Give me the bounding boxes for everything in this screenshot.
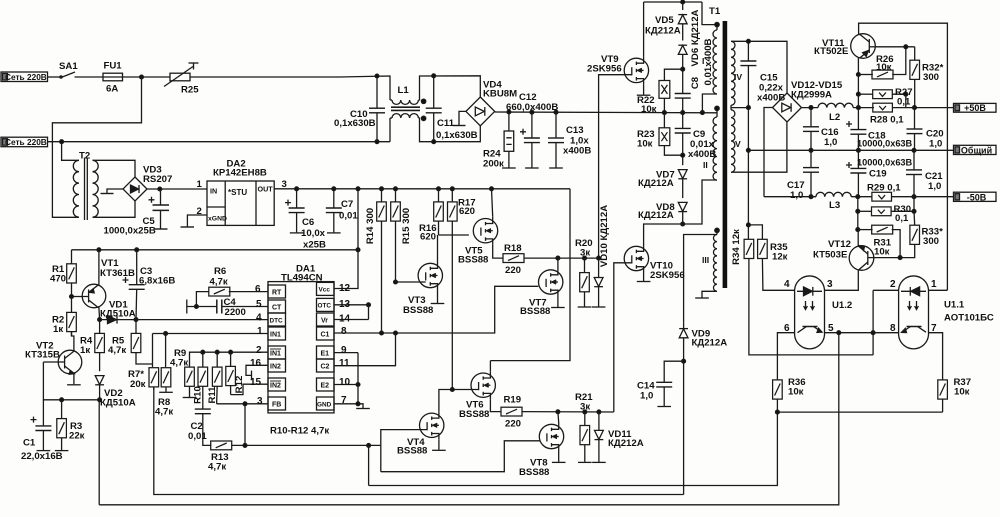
svg-text:8: 8 bbox=[890, 323, 896, 334]
svg-text:E2: E2 bbox=[321, 383, 330, 390]
svg-text:7: 7 bbox=[931, 323, 937, 334]
svg-text:R15 300: R15 300 bbox=[401, 208, 412, 244]
DTC wire (pin 4 net) with VD1 bbox=[98, 318, 268, 322]
capacitor C2 0,01 bbox=[195, 409, 212, 445]
svg-text:15: 15 bbox=[250, 377, 262, 388]
svg-text:7: 7 bbox=[341, 395, 347, 406]
svg-text:4,7к: 4,7к bbox=[208, 462, 226, 473]
resistor R33* 300 bbox=[900, 211, 919, 257]
svg-text:4: 4 bbox=[784, 279, 790, 290]
current sense R28 0,1 bbox=[873, 103, 954, 112]
svg-text:-50В: -50В bbox=[967, 193, 987, 203]
VT6 gate wire and VT4 drain riser bbox=[439, 390, 479, 412]
svg-text:SA1: SA1 bbox=[59, 61, 78, 72]
primary feedback bus (VD9 to R7) bbox=[154, 387, 684, 494]
DA1 pin names right bbox=[317, 287, 332, 409]
terminal Сеть 220В (line 2) bbox=[1, 137, 48, 147]
VT11 base wire bbox=[875, 45, 914, 49]
MOSFET VT5 BSS88 bbox=[473, 217, 497, 245]
E1/E2 common riser to GND pin bbox=[357, 353, 359, 404]
VT10 source T-bar bbox=[637, 273, 651, 282]
VT6 source to R19 bbox=[490, 399, 501, 411]
svg-text:U1.1: U1.1 bbox=[944, 300, 965, 311]
svg-text:C13: C13 bbox=[566, 125, 584, 136]
svg-text:5: 5 bbox=[256, 299, 262, 310]
VT9 source T-bar bbox=[637, 84, 651, 95]
svg-text:0,1: 0,1 bbox=[895, 213, 909, 224]
svg-text:GND: GND bbox=[317, 402, 332, 409]
svg-text:C1: C1 bbox=[321, 332, 330, 339]
svg-text:4,7к: 4,7к bbox=[170, 358, 188, 369]
MOSFET VT6 BSS88 bbox=[471, 371, 495, 399]
svg-text:0,1: 0,1 bbox=[897, 97, 911, 108]
svg-text:L2: L2 bbox=[829, 112, 840, 123]
wire T2 secondary to VD3 bbox=[95, 160, 135, 217]
wire FU1 to R25 with junction bbox=[123, 75, 171, 79]
capacitor C1 22,0x16В bbox=[31, 400, 52, 451]
svg-text:R10: R10 bbox=[193, 386, 204, 404]
capacitor C9 0,01x x400В bbox=[675, 113, 691, 166]
resistor R10 bbox=[198, 352, 208, 409]
svg-text:BSS88: BSS88 bbox=[397, 446, 428, 457]
riser U1 pins 2/5/8 node down to R34 wire bbox=[872, 290, 874, 355]
resistor R17 620 bbox=[448, 189, 458, 392]
svg-text:КТ361В: КТ361В bbox=[100, 268, 135, 279]
svg-text:1,0: 1,0 bbox=[790, 190, 803, 201]
VT5 gate wire bbox=[439, 234, 469, 236]
overline IN2b bbox=[270, 380, 281, 382]
resistor R5 4,7к bbox=[131, 320, 152, 364]
svg-text:10к: 10к bbox=[876, 62, 892, 73]
VT4 source T-bar bbox=[432, 439, 446, 450]
svg-text:470: 470 bbox=[50, 274, 66, 285]
capacitor C16 1,0 bbox=[803, 108, 819, 151]
regulator DA2 КР142ЕН8В bbox=[207, 181, 274, 225]
svg-text:IN2: IN2 bbox=[270, 383, 281, 390]
svg-text:CT: CT bbox=[272, 305, 282, 312]
svg-text:0,01x400В: 0,01x400В bbox=[703, 38, 714, 85]
svg-text:1: 1 bbox=[197, 179, 203, 190]
svg-text:2: 2 bbox=[256, 345, 262, 356]
svg-text:OUT: OUT bbox=[258, 185, 274, 194]
svg-text:R14 300: R14 300 bbox=[365, 208, 376, 244]
VT10 gate riser from lower driver row bbox=[614, 263, 632, 412]
MOSFET VT8 BSS88 bbox=[539, 423, 563, 451]
VT5 drain riser to +25 rail bbox=[492, 189, 493, 217]
DA1 pin 14 Vr wire bbox=[334, 305, 369, 320]
VT4 gate wire and riser bbox=[381, 430, 427, 472]
svg-text:BSS88: BSS88 bbox=[458, 255, 489, 266]
capacitor C18 10000,0x63В bbox=[846, 108, 866, 151]
resistor R19 220 bbox=[501, 407, 614, 416]
T1 winding I bbox=[702, 2, 719, 113]
DA1 pin 11 C2 wire bbox=[334, 333, 396, 366]
T1 winding V bbox=[731, 41, 787, 172]
VT7 source T-bar bbox=[551, 296, 565, 308]
svg-text:R12: R12 bbox=[234, 376, 245, 394]
svg-text:220: 220 bbox=[505, 265, 521, 276]
diode VD5 КД212А bbox=[678, 2, 687, 41]
HV+ rail from VD4 to T1 bbox=[495, 110, 717, 114]
resistor R16 620 bbox=[434, 189, 444, 235]
terminal -50В bbox=[954, 192, 997, 201]
svg-text:620: 620 bbox=[420, 232, 436, 243]
capacitor C14 1,0 bbox=[656, 361, 683, 406]
terminal +50В bbox=[954, 103, 997, 112]
svg-text:АОТ101БС: АОТ101БС bbox=[944, 313, 994, 324]
resistor R26 10к bbox=[858, 47, 905, 79]
svg-text:10к: 10к bbox=[641, 104, 657, 115]
svg-text:10к: 10к bbox=[874, 247, 890, 258]
wire VD8 node to T1 winding II bottom bbox=[683, 180, 717, 224]
wire L1 bottom out bbox=[390, 118, 480, 142]
DA1 pin 3 FB wire bbox=[217, 402, 268, 406]
svg-text:C2: C2 bbox=[321, 364, 330, 371]
capacitor C8 0,01x400В bbox=[675, 94, 691, 113]
capacitor C3 6,8x16В bbox=[123, 250, 145, 320]
T1 winding IV bbox=[731, 39, 787, 105]
capacitor C11 0,1x630В bbox=[426, 74, 442, 144]
wire VD3 to DA2 pin1 bbox=[147, 187, 207, 191]
svg-text:VD5: VD5 bbox=[655, 15, 674, 26]
svg-text:660,0x400В: 660,0x400В bbox=[506, 102, 558, 113]
wire T2 primary top riser bbox=[62, 142, 77, 161]
resistor R12 bbox=[226, 352, 236, 394]
resistor R32* 300 bbox=[910, 47, 920, 108]
svg-text:КД212А: КД212А bbox=[608, 438, 644, 449]
svg-text:2SK956: 2SK956 bbox=[587, 64, 622, 75]
svg-text:КД212А: КД212А bbox=[692, 338, 728, 349]
svg-text:1,0: 1,0 bbox=[824, 137, 837, 148]
svg-text:КД212А: КД212А bbox=[645, 26, 681, 37]
VT8 gate bus wire bbox=[381, 441, 540, 472]
fuse FU1 6A bbox=[103, 73, 123, 81]
wire R25 to L1 corner bbox=[190, 76, 390, 100]
svg-text:VD6 КД212А: VD6 КД212А bbox=[690, 9, 701, 66]
svg-text:R18: R18 bbox=[504, 243, 522, 254]
svg-text:C11: C11 bbox=[437, 118, 455, 129]
wire VD12 bridge left vertex to -50V rail bbox=[764, 108, 773, 197]
svg-text:KBU8M: KBU8M bbox=[483, 89, 517, 100]
terminal Общий bbox=[954, 145, 997, 154]
svg-text:IN1: IN1 bbox=[270, 351, 281, 358]
MOSFET VT3 BSS88 bbox=[418, 262, 442, 290]
svg-text:20к: 20к bbox=[130, 379, 146, 390]
capacitor C21 1,0 bbox=[906, 150, 922, 196]
svg-text:200к: 200к bbox=[483, 159, 504, 170]
resistor R23 10к bbox=[659, 113, 683, 156]
VD2 node riser to bottom bus bbox=[98, 400, 100, 505]
svg-text:4,7к: 4,7к bbox=[210, 277, 228, 288]
svg-text:OTC: OTC bbox=[318, 303, 332, 310]
DA1 pin 8 C1 wire to VT7 gate bbox=[334, 286, 538, 335]
resistor R8 4,7к bbox=[159, 332, 173, 393]
svg-text:3: 3 bbox=[257, 396, 263, 407]
overline IN1b bbox=[270, 348, 281, 350]
svg-text:R28 0,1: R28 0,1 bbox=[870, 115, 904, 126]
diode VD8 КД212А bbox=[678, 202, 687, 226]
svg-text:C7: C7 bbox=[341, 199, 353, 210]
capacitor C10 0,1x630В bbox=[369, 74, 385, 142]
svg-text:300: 300 bbox=[923, 236, 939, 247]
svg-text:III: III bbox=[702, 255, 709, 265]
DA2 pin 2 GND wire and ground bbox=[181, 215, 208, 227]
svg-text:RS207: RS207 bbox=[143, 174, 172, 185]
rail corner riser to driver rows bbox=[490, 189, 570, 361]
DA1 pin 9 E1 wire bbox=[334, 352, 358, 354]
DA1 pin 13 OTC wire bbox=[334, 303, 370, 307]
svg-text:Общий: Общий bbox=[961, 146, 992, 156]
wire from line1 terminal to SA1 bbox=[48, 76, 61, 78]
svg-text:10к: 10к bbox=[954, 387, 970, 398]
svg-text:x400В: x400В bbox=[688, 149, 716, 160]
ground at VD4 left vertex bbox=[453, 111, 466, 125]
VT9 gate riser from driver row bbox=[599, 75, 632, 258]
resistor R3 22к bbox=[55, 400, 69, 451]
DA1 pin names left bbox=[270, 290, 284, 409]
svg-text:220: 220 bbox=[505, 419, 521, 430]
VT11 collector wire to U1.1 pin1 bbox=[859, 23, 948, 290]
svg-text:TL494CN: TL494CN bbox=[281, 273, 323, 284]
svg-text:+50В: +50В bbox=[964, 103, 986, 113]
+12V rail to VT1 stage bbox=[72, 248, 360, 252]
resistor R9 4,7к bbox=[183, 367, 197, 397]
svg-text:9: 9 bbox=[341, 345, 347, 356]
DA1 pin 6 RT wire bbox=[229, 291, 268, 293]
svg-text:R34 12к: R34 12к bbox=[731, 229, 742, 265]
svg-text:IN1: IN1 bbox=[270, 332, 281, 339]
svg-text:T2: T2 bbox=[79, 151, 90, 162]
transformer T1 core bbox=[723, 21, 728, 288]
resistor R6 4,7к bbox=[196, 287, 229, 306]
diode VD6 КД212А bbox=[678, 45, 687, 93]
svg-text:Сеть 220В: Сеть 220В bbox=[5, 137, 47, 147]
U1.2 pin 6 wire to R36 bbox=[777, 333, 794, 380]
svg-text:3: 3 bbox=[827, 279, 833, 290]
svg-text:КД510А: КД510А bbox=[100, 309, 136, 320]
svg-text:IN2: IN2 bbox=[270, 364, 281, 371]
svg-text:0,01: 0,01 bbox=[188, 431, 207, 442]
VT12 collector wire to U1.2 pin3 bbox=[825, 270, 859, 291]
svg-text:R19: R19 bbox=[504, 395, 522, 406]
capacitor C6 10,0x x25В bbox=[285, 189, 305, 233]
VT8 drain riser bbox=[557, 412, 560, 423]
transistor VT2 КТ315В (NPN) bbox=[43, 332, 81, 385]
svg-text:*STU: *STU bbox=[228, 188, 247, 197]
wire VD6/C8 node to R22 bbox=[664, 69, 682, 80]
wire T1 center tap down to common rail bbox=[747, 106, 751, 153]
diode VD2 КД510А bbox=[95, 376, 104, 400]
svg-text:xGND: xGND bbox=[208, 216, 227, 223]
svg-text:R6: R6 bbox=[214, 266, 226, 277]
MOSFET VT4 BSS88 bbox=[420, 411, 444, 439]
capacitor C13 1,0x x400В bbox=[548, 112, 564, 168]
capacitor C5 1000,0x25В bbox=[149, 189, 170, 229]
svg-text:E1: E1 bbox=[321, 351, 330, 358]
current sense R27 0,1 bbox=[858, 90, 907, 108]
svg-text:10: 10 bbox=[339, 377, 351, 388]
svg-text:0,1x630В: 0,1x630В bbox=[334, 118, 376, 129]
current sense R29 0,1 bbox=[872, 192, 954, 201]
svg-text:C8: C8 bbox=[690, 76, 701, 89]
riser R36/R37 node to feedback bus bbox=[369, 412, 778, 485]
VT3 gate wire bbox=[396, 281, 426, 283]
node dots on C1/R3 wire bbox=[60, 398, 102, 402]
resistor R4 1к bbox=[95, 320, 105, 372]
svg-text:2SK956: 2SK956 bbox=[650, 270, 685, 281]
svg-text:3: 3 bbox=[282, 179, 287, 190]
VT3 drain riser to R16/VT5 gate node bbox=[437, 235, 439, 262]
svg-text:R11: R11 bbox=[207, 386, 218, 404]
svg-text:КТ502Е: КТ502Е bbox=[814, 46, 849, 57]
wire line2 bottom rail to L1 bbox=[48, 140, 391, 144]
capacitor C19 10000,0x63В bbox=[846, 150, 866, 196]
DA1 pin 7 GND wire and ground bbox=[334, 402, 370, 409]
U1.2 pin 5 wire bbox=[825, 331, 875, 335]
svg-text:10000,0x63В: 10000,0x63В bbox=[857, 139, 913, 149]
current sense R30 0,1 bbox=[858, 197, 916, 216]
svg-text:V: V bbox=[735, 139, 741, 149]
svg-text:R10-R12 4,7к: R10-R12 4,7к bbox=[270, 426, 329, 437]
svg-text:FB: FB bbox=[272, 402, 281, 409]
VT7 drain riser bbox=[557, 258, 559, 268]
svg-text:1: 1 bbox=[931, 279, 937, 290]
svg-text:КД2999А: КД2999А bbox=[791, 90, 832, 101]
optocoupler U1.2 bbox=[795, 276, 825, 349]
svg-text:U1.2: U1.2 bbox=[832, 300, 852, 311]
svg-text:BSS88: BSS88 bbox=[459, 409, 490, 420]
resistor R14 300 bbox=[377, 189, 387, 333]
U1.1 pin 2 wire bbox=[873, 289, 899, 291]
MOSFET VT10 2SK956 bbox=[624, 245, 648, 273]
wire VD8 node to VT10 drain bbox=[644, 224, 683, 245]
diode VD7 КД212А bbox=[678, 170, 687, 198]
resistor R1 470 bbox=[67, 250, 77, 313]
wire riser from SA1 junction down-left bbox=[52, 77, 141, 217]
svg-text:2: 2 bbox=[890, 279, 896, 290]
capacitor C20 1,0 bbox=[907, 108, 923, 151]
R36/R37 bottom node wire bbox=[776, 410, 943, 414]
svg-text:КР142ЕН8В: КР142ЕН8В bbox=[213, 168, 267, 179]
svg-text:x25В: x25В bbox=[303, 240, 326, 251]
resistor R15 300 bbox=[391, 189, 401, 284]
svg-text:6A: 6A bbox=[106, 84, 118, 95]
svg-text:16: 16 bbox=[250, 358, 262, 369]
svg-text:FU1: FU1 bbox=[104, 61, 123, 72]
svg-text:1,0: 1,0 bbox=[929, 139, 942, 150]
DA1 pin 12 Vcc wire and riser bbox=[334, 189, 358, 289]
svg-text:BSS88: BSS88 bbox=[520, 306, 551, 317]
svg-text:3к: 3к bbox=[580, 402, 590, 413]
svg-text:BSS88: BSS88 bbox=[403, 305, 434, 316]
svg-text:300: 300 bbox=[923, 72, 939, 83]
svg-text:0,1x630В: 0,1x630В bbox=[436, 130, 478, 141]
VT11 emitter riser bbox=[857, 58, 861, 108]
VT12 emitter node riser bbox=[856, 197, 860, 232]
svg-text:КД212А: КД212А bbox=[638, 210, 674, 221]
svg-text:T1: T1 bbox=[709, 6, 721, 17]
DA1 pin 10 E2 wire bbox=[334, 383, 360, 387]
svg-text:IN: IN bbox=[210, 187, 217, 196]
svg-text:RT: RT bbox=[272, 290, 282, 297]
svg-text:КТ315В: КТ315В bbox=[25, 350, 60, 361]
svg-text:КД510А: КД510А bbox=[100, 398, 136, 409]
+25V rail from DA2 out bbox=[274, 187, 570, 191]
svg-text:C1: C1 bbox=[23, 438, 36, 449]
capacitor C15 0,22x x400В bbox=[740, 61, 756, 66]
VT8 source T-bar bbox=[552, 451, 566, 463]
VT3 source T-bar bbox=[431, 290, 445, 304]
wire L1 top out to C11 node bbox=[418, 76, 480, 100]
svg-text:6,8x16В: 6,8x16В bbox=[139, 276, 175, 287]
resistor R22 10к bbox=[659, 81, 670, 113]
svg-text:КД212А: КД212А bbox=[638, 178, 674, 189]
svg-text:13: 13 bbox=[339, 299, 351, 310]
svg-text:10000,0x63В: 10000,0x63В bbox=[857, 158, 913, 168]
diode VD10 КД212А bbox=[592, 258, 606, 307]
resistor R24 200к bbox=[502, 112, 516, 168]
resistor R7* 20к bbox=[149, 334, 159, 391]
svg-text:Vr: Vr bbox=[321, 318, 328, 325]
terminal Сеть 220В (line 1) bbox=[1, 72, 48, 82]
riser pin5 node to bottom bus bbox=[99, 333, 839, 505]
svg-text:12к: 12к bbox=[772, 252, 788, 263]
resistor R2 1к bbox=[67, 312, 77, 336]
MOSFET VT9 2SK956 bbox=[624, 56, 648, 84]
svg-text:10,0x: 10,0x bbox=[301, 228, 326, 239]
resistor R34 12к bbox=[744, 150, 873, 355]
svg-text:22к: 22к bbox=[69, 431, 85, 442]
top node wire bbox=[644, 0, 702, 4]
svg-text:3к: 3к bbox=[580, 248, 590, 259]
VT12 base wire bbox=[874, 256, 902, 260]
VT5 source to R18 bbox=[493, 245, 503, 258]
svg-text:10к: 10к bbox=[788, 387, 804, 398]
svg-text:22,0x16В: 22,0x16В bbox=[21, 451, 63, 462]
svg-text:R25: R25 bbox=[181, 85, 199, 96]
svg-text:R29 0,1: R29 0,1 bbox=[867, 183, 901, 194]
T1 winding II bbox=[713, 106, 719, 180]
svg-text:x400В: x400В bbox=[757, 93, 785, 104]
+50V rail with L2 bbox=[802, 103, 875, 109]
capacitor C7 0,01 bbox=[326, 189, 342, 233]
svg-text:Vcc: Vcc bbox=[319, 287, 331, 294]
diode VD1 КД510А bbox=[108, 316, 122, 324]
svg-text:C19: C19 bbox=[869, 169, 887, 180]
thermistor R25 bbox=[164, 63, 199, 87]
common-mode choke L1 bbox=[390, 99, 426, 121]
svg-text:BSS88: BSS88 bbox=[519, 467, 550, 478]
diode VD9 КД212А bbox=[679, 323, 688, 495]
svg-text:x400В: x400В bbox=[563, 146, 591, 157]
MOSFET VT7 BSS88 bbox=[539, 268, 563, 296]
optocoupler U1.1 АОТ101БС bbox=[899, 276, 929, 349]
transformer T2 bbox=[73, 158, 98, 221]
DA1 pin 2 IN1b wire to R9-R12 bbox=[190, 350, 269, 367]
resistor R35 12к bbox=[748, 225, 794, 290]
resistor R13 4,7к bbox=[211, 441, 381, 450]
svg-text:VT12: VT12 bbox=[828, 239, 851, 250]
ground at VD3 left vertex bbox=[101, 189, 124, 194]
svg-text:1к: 1к bbox=[80, 345, 90, 356]
DA1 pin 5 CT wire with C4 bbox=[187, 300, 268, 314]
svg-text:C6: C6 bbox=[302, 217, 314, 228]
svg-text:1к: 1к bbox=[53, 324, 63, 335]
DA1 pin 16 IN2 wire with stub bbox=[246, 365, 268, 380]
svg-text:6: 6 bbox=[255, 284, 261, 295]
capacitor C4 2200 bbox=[217, 300, 222, 314]
riser R13 wire to feedback bus bbox=[368, 445, 370, 485]
